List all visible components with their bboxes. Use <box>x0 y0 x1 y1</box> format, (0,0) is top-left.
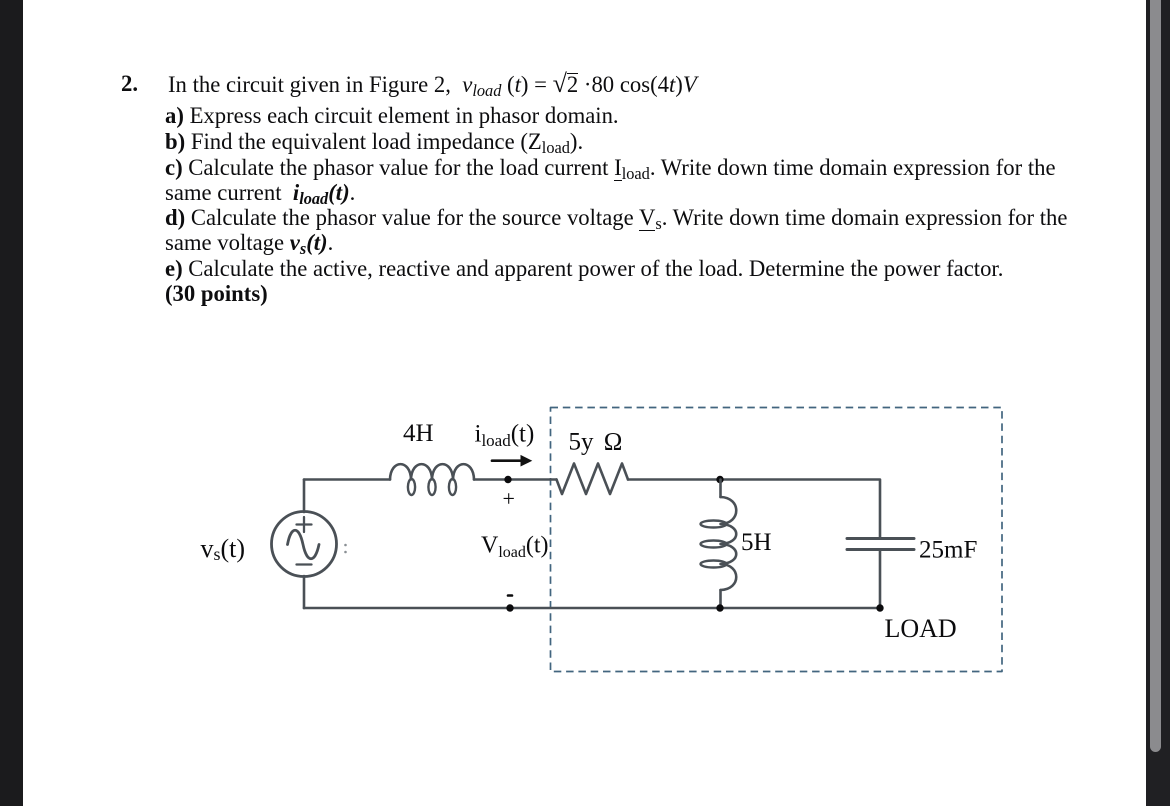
capacitor C 25mF plates <box>847 537 914 540</box>
source minus sign <box>297 563 312 565</box>
problem text <box>121 71 138 97</box>
wire bottom <box>304 607 880 610</box>
inductor L2 5H (shunt) <box>719 480 722 498</box>
svg-text:LOAD: LOAD <box>885 614 957 643</box>
resistor R 5y ohm <box>557 464 629 495</box>
svg-text:5H: 5H <box>741 529 772 556</box>
source VS circle <box>272 512 337 577</box>
node dot bottom of capacitor <box>876 604 883 611</box>
source sine wave <box>288 530 320 559</box>
scrollbar thumb <box>1150 0 1161 752</box>
svg-text:+: + <box>503 486 515 511</box>
node dot bottom (- terminal) <box>506 604 513 611</box>
svg-text:5y Ω: 5y Ω <box>569 429 623 456</box>
colon mark right of source <box>344 544 347 547</box>
node dot top of 5H <box>716 476 723 483</box>
node dot top (+ terminal) <box>504 476 511 483</box>
wire top middle segment <box>474 478 557 481</box>
svg-text:25mF: 25mF <box>919 537 977 564</box>
current arrow <box>492 459 523 462</box>
wire left vertical (source stubs) <box>303 480 306 513</box>
capacitor lower lead <box>879 550 882 608</box>
inductor L1 4H (series) <box>390 464 474 479</box>
left black sidebar <box>0 0 23 806</box>
dashed LOAD box <box>551 408 1003 672</box>
right dark strip <box>1146 0 1170 806</box>
node dot bottom of 5H <box>716 604 723 611</box>
svg-text:Vload(t): Vload(t) <box>481 533 549 562</box>
svg-text:vs(t): vs(t) <box>201 534 246 564</box>
wire top right segment (turns down into capacitor) <box>628 480 880 539</box>
minus mark <box>508 594 512 597</box>
wire top left segment <box>304 478 390 481</box>
svg-text:iload(t): iload(t) <box>475 421 535 451</box>
source plus sign <box>297 517 312 532</box>
svg-text:4H: 4H <box>403 420 434 447</box>
